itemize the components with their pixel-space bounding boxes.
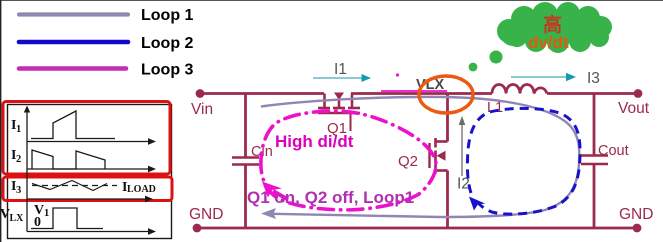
svg-text:dv/dt: dv/dt — [528, 33, 569, 52]
Q1 on Q2 off Loop1 label — [247, 188, 414, 207]
waveform shared vertical axis — [24, 106, 30, 232]
loop3 arrowhead — [262, 182, 288, 200]
svg-text:1: 1 — [44, 208, 49, 219]
wire top rail inductor to Vout — [547, 92, 638, 95]
wire Cout branch lower — [593, 164, 596, 228]
High di/dt label — [275, 132, 354, 151]
node Vout dot — [634, 89, 643, 98]
wire Cin branch upper — [244, 94, 247, 158]
svg-text:GND: GND — [189, 206, 223, 223]
Cout label — [598, 143, 629, 159]
wire top rail Q1 to VLX and inductor — [351, 92, 492, 95]
waveform ILOAD label — [122, 180, 156, 195]
wire Cout branch upper — [593, 94, 596, 156]
waveform I2 trace — [32, 150, 105, 169]
waveform I3 axis — [27, 196, 153, 203]
svg-text:LX: LX — [10, 213, 25, 224]
loop2 blue dashed path annotation — [467, 108, 580, 214]
node VLX label — [416, 77, 445, 93]
svg-text:Q1 on, Q2 off, Loop1: Q1 on, Q2 off, Loop1 — [247, 188, 414, 207]
waveform I1 label — [11, 118, 21, 135]
GND right label — [619, 206, 653, 223]
current arrow I2 (vertical) — [459, 116, 466, 176]
svg-text:2: 2 — [16, 154, 21, 165]
waveform V1 level label — [34, 203, 49, 219]
inductor L1 — [492, 85, 547, 94]
svg-text:L1: L1 — [487, 100, 503, 116]
legend loop2 swatch — [19, 40, 128, 45]
svg-text:Loop 3: Loop 3 — [141, 62, 194, 79]
Vin label — [191, 101, 213, 118]
svg-text:GND: GND — [619, 206, 653, 223]
Q1 label — [327, 120, 347, 137]
legend loop1 label — [141, 7, 194, 24]
node GND right dot — [633, 224, 642, 233]
svg-text:Loop 2: Loop 2 — [141, 35, 194, 52]
svg-text:I3: I3 — [587, 70, 600, 87]
waveform red highlight box upper (I1,I2) — [3, 102, 170, 175]
cloud text 高 — [543, 13, 562, 36]
waveform I2 label — [11, 148, 21, 165]
capacitor Cout — [581, 156, 608, 165]
loop3 magenta dashed ellipse annotation — [261, 111, 436, 210]
node Vin dot — [196, 89, 205, 98]
VLX highlight orange ellipse — [419, 76, 473, 113]
svg-text:0: 0 — [34, 215, 41, 230]
waveform red highlight box I3 row — [3, 177, 172, 201]
wire Q2 source to GND rail — [446, 171, 449, 229]
svg-text:Vin: Vin — [191, 101, 213, 118]
wire VLX branch to Q2 drain — [446, 94, 449, 142]
svg-text:I1: I1 — [334, 61, 347, 78]
svg-text:1: 1 — [16, 124, 21, 135]
legend loop2 label — [141, 35, 194, 52]
loop3 segment along VLX rail — [381, 73, 447, 91]
I1 current label — [334, 61, 347, 78]
loop1 gray path annotation — [261, 97, 579, 219]
Cin label — [251, 144, 273, 160]
current arrow I3 — [511, 73, 576, 81]
waveform I1 trace — [31, 111, 115, 139]
transistor Q1 (high-side FET) — [318, 93, 360, 132]
waveform inset black frame — [8, 105, 172, 239]
wire top rail Vin to Q1 — [200, 92, 324, 95]
svg-text:Loop 1: Loop 1 — [141, 7, 194, 24]
transistor Q2 (low-side FET) — [430, 138, 448, 174]
waveform 0 level label — [34, 215, 41, 230]
legend loop1 swatch — [19, 12, 128, 16]
current arrow I1 — [313, 74, 371, 82]
svg-text:Q2: Q2 — [398, 153, 418, 170]
svg-text:Vout: Vout — [618, 100, 650, 117]
waveform VLX axis — [27, 228, 156, 235]
waveform I1 axis — [27, 138, 156, 145]
legend loop3 label — [141, 62, 194, 79]
node GND left dot — [193, 224, 202, 233]
waveform VLX label — [0, 207, 24, 224]
dv/dt green thought cloud — [469, 2, 612, 71]
svg-text:High di/dt: High di/dt — [275, 132, 354, 151]
waveform I2 axis — [27, 166, 156, 173]
svg-text:Cout: Cout — [598, 143, 629, 159]
Q2 label — [398, 153, 418, 170]
Vout label — [618, 100, 650, 117]
waveform I3 average dashed line ILOAD level — [32, 185, 117, 187]
wire Cin branch lower — [244, 165, 247, 229]
capacitor Cin — [232, 158, 259, 165]
cloud text dv/dt — [528, 33, 569, 52]
legend loop3 swatch — [19, 66, 126, 71]
waveform I3 ripple trace — [32, 181, 107, 191]
L1 label — [487, 100, 503, 116]
wire bottom GND rail — [197, 227, 637, 230]
waveform I3 label — [11, 179, 21, 196]
waveform VLX pulse trace — [31, 208, 103, 229]
svg-text:LOAD: LOAD — [127, 184, 156, 195]
I3 current label — [587, 70, 600, 87]
svg-text:3: 3 — [16, 185, 21, 196]
I2 current label — [457, 176, 470, 193]
GND left label — [189, 206, 223, 223]
